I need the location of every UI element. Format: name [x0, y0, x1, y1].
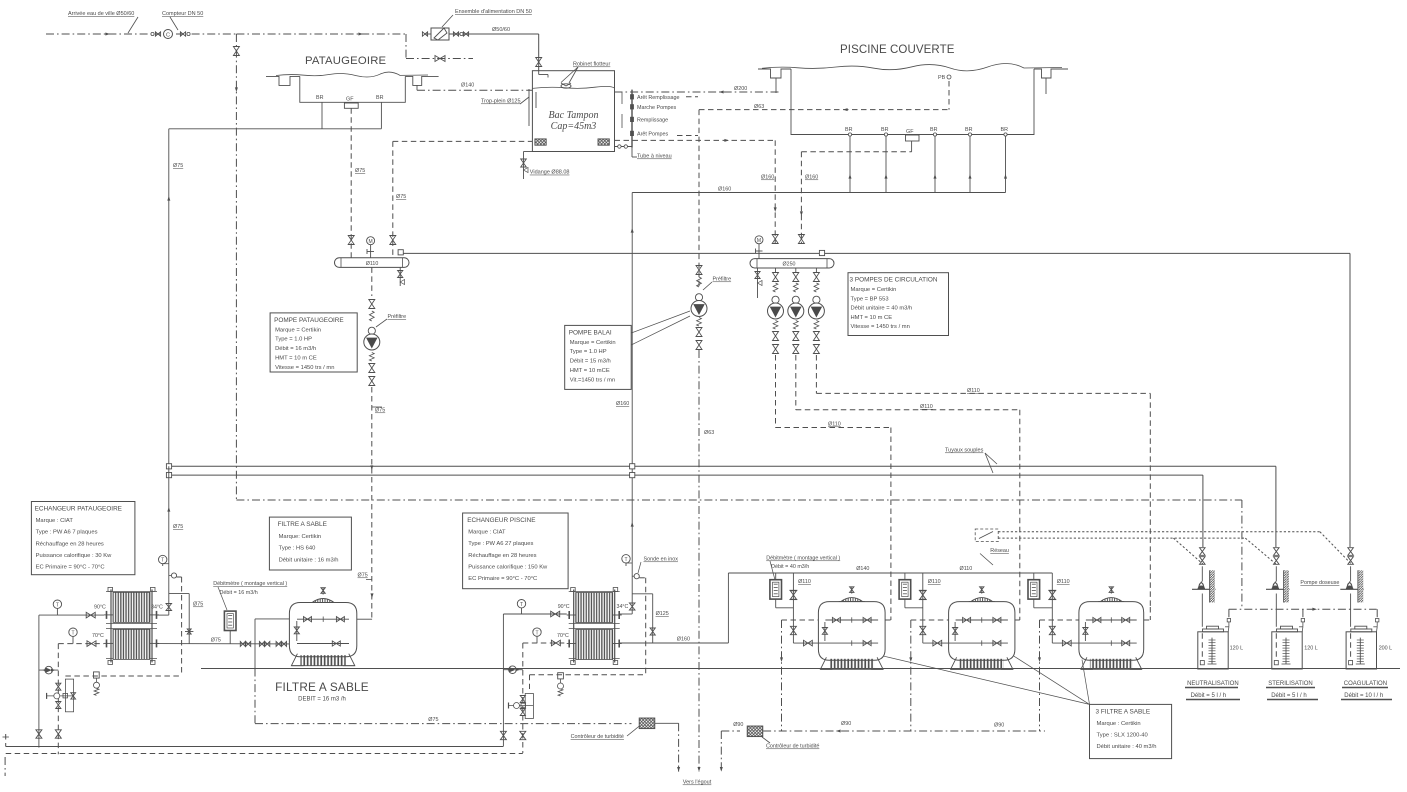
wire 90C line piscine — [503, 613, 566, 615]
GF sump box piscine — [906, 135, 920, 141]
svg-text:Ø75: Ø75 — [375, 408, 385, 414]
sand filter vessel HS640 — [289, 603, 356, 657]
svg-text:Ø75: Ø75 — [396, 194, 406, 200]
filter drop line 2 — [922, 573, 924, 643]
svg-text:Contrôleur de turbidité: Contrôleur de turbidité — [571, 734, 624, 740]
vessel drain dash-dot down — [1039, 620, 1041, 731]
svg-text:70°C: 70°C — [92, 633, 104, 639]
turbidity controller 1 — [639, 718, 655, 729]
bac tampon tank — [532, 71, 614, 152]
wall hatched — [1210, 570, 1215, 602]
vessel1 internal bottom line — [297, 643, 349, 645]
wire tuyaux souples top y=466.3 — [172, 465, 1276, 467]
wire 34C secondary to riser — [157, 614, 169, 616]
flowmeter 1 — [770, 580, 782, 599]
wire BR pipes down — [321, 102, 323, 129]
svg-text:Type : HS 640: Type : HS 640 — [279, 546, 316, 552]
text box ECHANGEUR PATAUGEOIRE — [31, 502, 134, 575]
Y-strainer ensemble alimentation — [431, 28, 449, 40]
svg-text:Ø90: Ø90 — [994, 723, 1004, 729]
dosing pump — [1192, 588, 1216, 590]
svg-text:Réchauffage en 28 heures: Réchauffage en 28 heures — [36, 541, 104, 547]
suction riser to distribution — [1228, 609, 1230, 618]
text box ECHANGEUR PISCINE — [463, 513, 568, 589]
wire 34C to riser piscine — [620, 613, 632, 615]
svg-text:HMT = 10 m CE: HMT = 10 m CE — [275, 356, 317, 362]
wire dashed sonde loop x=181.6 — [181, 577, 183, 676]
wire to bac tampon — [473, 33, 539, 35]
dosing station tank 120 L — [1198, 632, 1228, 669]
pompe pataugeoire with prefiltre — [368, 327, 375, 334]
svg-text:BR: BR — [376, 95, 384, 101]
pompe pataugeoire line — [371, 267, 373, 296]
svg-text:M: M — [369, 239, 373, 245]
svg-text:34°C: 34°C — [617, 604, 629, 610]
svg-text:Tube à niveau: Tube à niveau — [637, 154, 672, 160]
vessel feed dashed right — [1144, 619, 1151, 621]
dosing station tank 200 L — [1346, 632, 1376, 669]
svg-text:STERILISATION: STERILISATION — [1268, 681, 1313, 687]
gauge T 70C — [69, 628, 77, 636]
svg-text:Débit = 16 m3/h: Débit = 16 m3/h — [275, 346, 316, 352]
wire circulation pump3 dashed route — [815, 355, 817, 393]
svg-text:Marque : CIAT: Marque : CIAT — [36, 518, 74, 524]
svg-text:Ø160: Ø160 — [616, 401, 629, 407]
wire primary 90 drop x=39.5 — [38, 615, 40, 748]
svg-text:Ø75: Ø75 — [173, 524, 183, 530]
wire balai to sewer dash-dot x=699 — [698, 350, 700, 772]
svg-text:Arêt Remplissage: Arêt Remplissage — [637, 95, 680, 101]
pompe balai with prefiltre — [695, 294, 702, 301]
wire dashed riser x=775.2 — [774, 140, 776, 244]
svg-text:3 POMPES DE CIRCULATION: 3 POMPES DE CIRCULATION — [850, 277, 938, 284]
svg-text:Cap=45m3: Cap=45m3 — [551, 121, 597, 132]
svg-text:Ø200: Ø200 — [734, 86, 747, 92]
svg-text:POMPE PATAUGEOIRE: POMPE PATAUGEOIRE — [274, 317, 344, 324]
gauge M pataugeoire manifold — [367, 237, 375, 245]
svg-text:Ø110: Ø110 — [928, 579, 941, 585]
svg-text:PB: PB — [938, 75, 946, 81]
svg-text:Ø160: Ø160 — [677, 637, 690, 643]
sonde circle piscine — [634, 574, 639, 579]
svg-text:Sonde en inox: Sonde en inox — [644, 557, 679, 563]
svg-text:Type = BP 553: Type = BP 553 — [851, 296, 889, 302]
wire dashed riser x=801.4 — [800, 152, 802, 244]
wire BR pipes to collector — [849, 136, 851, 193]
svg-text:BR: BR — [316, 95, 324, 101]
junction box left end — [398, 250, 403, 255]
wire piscine return dash-dot O200 — [615, 91, 780, 93]
svg-text:Ø75: Ø75 — [428, 717, 438, 723]
vessel backwash out dashed left — [1040, 619, 1079, 621]
gauge T 90C — [53, 600, 61, 608]
svg-text:Préfiltre: Préfiltre — [388, 314, 407, 320]
suction lance dashed — [1350, 633, 1352, 660]
svg-text:Vitesse = 1450 trs / mn: Vitesse = 1450 trs / mn — [275, 365, 334, 371]
svg-text:Débit unitaire = 40 m3/h: Débit unitaire = 40 m3/h — [851, 306, 913, 312]
svg-text:Débitmètre ( montage vertical: Débitmètre ( montage vertical ) — [213, 581, 287, 587]
svg-text:GF: GF — [906, 129, 914, 135]
svg-text:C: C — [166, 33, 170, 39]
svg-text:Ø125: Ø125 — [656, 611, 669, 617]
piscine basin — [791, 69, 1034, 135]
wire city-water main dash-dot y=34 — [46, 33, 160, 35]
sand filter vessel SLX 1 — [818, 602, 885, 661]
sand filter vessel SLX 2 — [949, 602, 1015, 661]
injection cluster piscine — [525, 694, 533, 719]
filter drop line 3 — [1051, 573, 1053, 643]
vessel1 internal top line — [297, 618, 349, 620]
vessel internal top line — [1086, 619, 1137, 621]
wire primary 70 drop dashed x=522.8 — [522, 643, 524, 753]
svg-text:Préfiltre: Préfiltre — [713, 277, 732, 283]
piscine right gutter — [1034, 69, 1068, 78]
water meter C — [164, 30, 173, 39]
junction box right of O250 — [819, 250, 824, 255]
svg-text:NEUTRALISATION: NEUTRALISATION — [1187, 681, 1239, 687]
svg-text:90°C: 90°C — [94, 605, 106, 611]
svg-text:70°C: 70°C — [557, 633, 569, 639]
svg-text:HMT = 10 mCE: HMT = 10 mCE — [570, 368, 610, 374]
svg-text:Ensemble d'alimentation DN 50: Ensemble d'alimentation DN 50 — [455, 9, 532, 15]
svg-text:Type = 1.0 HP: Type = 1.0 HP — [275, 337, 312, 343]
pompe balai line x=699 — [698, 110, 700, 288]
svg-text:Type : SLX 1200-40: Type : SLX 1200-40 — [1097, 732, 1148, 738]
svg-text:Marque = Certikin: Marque = Certikin — [851, 287, 897, 293]
feed pipe with valves — [1350, 566, 1352, 581]
primary circulating pump pataugeoire — [39, 669, 58, 671]
svg-text:Ø75: Ø75 — [355, 168, 365, 174]
bac feed drop — [538, 34, 540, 71]
svg-text:Réchauffage en 28 heures: Réchauffage en 28 heures — [468, 553, 536, 559]
junction squares x=169 — [166, 464, 171, 469]
agitator — [1285, 638, 1287, 664]
turbidity controller 2 — [747, 726, 763, 737]
injection point fitting — [94, 672, 100, 678]
svg-text:Bac Tampon: Bac Tampon — [549, 110, 599, 121]
wire long dash-dot y=500 — [236, 499, 1242, 501]
svg-text:Débit = 16 m3/h: Débit = 16 m3/h — [220, 590, 258, 596]
svg-text:90°C: 90°C — [558, 604, 570, 610]
vessel internal left valve — [1084, 622, 1086, 641]
dosing station tank 120 L — [1272, 632, 1302, 669]
wire GF drain dashed — [911, 141, 913, 152]
vessel internal bottom line — [923, 642, 1008, 644]
svg-text:Ø110: Ø110 — [960, 566, 973, 572]
feed pipe with valves — [1275, 566, 1277, 581]
vessel internal left valve — [954, 622, 956, 641]
dosing pump — [1266, 588, 1290, 590]
svg-text:Ø90: Ø90 — [841, 721, 851, 727]
svg-text:Ø75: Ø75 — [173, 163, 183, 169]
svg-text:Marque = Certikin: Marque = Certikin — [275, 327, 321, 333]
balai leader lines — [631, 311, 690, 333]
vessel drain dash-dot down — [910, 620, 912, 731]
suction lance dashed — [1275, 633, 1277, 660]
wire line to coagulation x=1350 — [1349, 253, 1351, 547]
svg-text:Pompe doseuse: Pompe doseuse — [1300, 580, 1339, 586]
wall hatched — [1284, 570, 1289, 602]
svg-text:120 L: 120 L — [1304, 646, 1318, 652]
flowmeter 2 — [899, 580, 911, 599]
svg-text:FILTRE A SABLE: FILTRE A SABLE — [275, 680, 369, 694]
wire primary 70 drop dashed x=58.3 — [57, 644, 59, 755]
wire primary 90 drop x=503.4 — [502, 614, 504, 746]
svg-text:Tuyaux souples: Tuyaux souples — [945, 448, 984, 454]
svg-text:34°C: 34°C — [151, 605, 163, 611]
wire dashed riser x=392.8 — [392, 141, 394, 257]
flowmeter 3 — [1028, 580, 1040, 599]
svg-text:COAGULATION: COAGULATION — [1344, 681, 1387, 687]
svg-text:Débit = 10 l / h: Débit = 10 l / h — [1344, 693, 1383, 699]
svg-text:ECHANGEUR PISCINE: ECHANGEUR PISCINE — [467, 517, 535, 524]
text box POMPE BALAI — [565, 325, 632, 389]
svg-text:Type = 1.0 HP: Type = 1.0 HP — [570, 349, 607, 355]
svg-text:Type : PW A6 7 plaques: Type : PW A6 7 plaques — [36, 530, 98, 536]
svg-text:Ø75: Ø75 — [211, 638, 221, 644]
svg-text:Marche Pompes: Marche Pompes — [637, 105, 677, 111]
svg-text:Puissance calorifique : 30 Kw: Puissance calorifique : 30 Kw — [36, 553, 113, 559]
injection fitting piscine — [558, 673, 564, 679]
svg-text:ECHANGEUR PATAUGEOIRE: ECHANGEUR PATAUGEOIRE — [35, 506, 122, 513]
svg-text:Marque = Certikin: Marque = Certikin — [570, 340, 616, 346]
svg-text:T: T — [624, 557, 627, 563]
vessel internal top line — [956, 619, 1008, 621]
wire circulation pump1 dashed route — [775, 355, 777, 428]
svg-text:Débit = 15 m3/h: Débit = 15 m3/h — [570, 359, 611, 365]
vessel1 internal left valve — [296, 621, 298, 641]
leader lines to filter label — [884, 656, 1090, 704]
svg-text:Ø250: Ø250 — [783, 262, 796, 268]
svg-text:GF: GF — [346, 97, 354, 103]
wire reseau fine-dash bottom — [998, 537, 1245, 539]
wire drain x=255 — [254, 619, 256, 669]
svg-text:PISCINE COUVERTE: PISCINE COUVERTE — [840, 44, 955, 56]
wire filter header y=573 — [728, 572, 1052, 574]
wire O160 outlet y=643 — [620, 642, 729, 644]
svg-text:T: T — [71, 630, 74, 636]
suction riser to distribution — [1302, 609, 1304, 618]
svg-text:Ø110: Ø110 — [366, 261, 379, 267]
wire O160 collector y=192.5 — [632, 192, 1005, 194]
level tube bottom link — [615, 146, 633, 148]
manifold1 drain valve — [399, 267, 401, 286]
svg-text:EC Primaire = 90°C - 70°C: EC Primaire = 90°C - 70°C — [36, 565, 105, 571]
overflow standpipe — [528, 89, 530, 126]
svg-text:Vit.=1450 trs / mn: Vit.=1450 trs / mn — [570, 377, 616, 383]
agitator — [1359, 638, 1361, 664]
vessel internal top line — [825, 619, 878, 621]
svg-text:Type : PW A6 27 plaques: Type : PW A6 27 plaques — [468, 541, 533, 547]
primary circulating pump piscine — [503, 669, 522, 671]
svg-text:Débit = 5 l / h: Débit = 5 l / h — [1271, 693, 1307, 699]
text box 3 POMPES DE CIRCULATION — [848, 273, 949, 336]
svg-text:FILTRE A SABLE: FILTRE A SABLE — [278, 521, 327, 528]
gauge T 90C piscine — [517, 600, 525, 608]
bottom primary return dashed y=753.5 — [6, 753, 523, 755]
svg-text:200 L: 200 L — [1379, 646, 1393, 652]
svg-text:HMT = 10 m CE: HMT = 10 m CE — [851, 315, 893, 321]
svg-text:Marque : Certikin: Marque : Certikin — [1097, 721, 1141, 727]
suction lance dashed — [1201, 633, 1203, 660]
gauge T 70C piscine — [533, 628, 541, 636]
vessel feed dashed right — [885, 619, 891, 621]
plate heat exchanger piscine — [573, 590, 575, 663]
gauge T on riser — [159, 555, 167, 563]
svg-text:Débit = 40 m3/h: Débit = 40 m3/h — [771, 564, 809, 570]
wire hose drop to neutralisation x=1202.9 — [1202, 475, 1204, 547]
dosing pump — [1340, 588, 1364, 590]
wire balai dashed — [948, 81, 950, 110]
svg-text:Ø110: Ø110 — [920, 404, 933, 410]
wire bac-to-manifold dashed y=141.4 — [393, 140, 533, 142]
tank water line — [532, 86, 614, 88]
wire to sewer x=678.6 — [678, 723, 680, 771]
robinet flotteur — [538, 71, 540, 75]
wire hose drop to sterilisation x=1275.9 — [1275, 466, 1277, 547]
reseau supply box — [979, 532, 993, 539]
wire O75 return dash-dot y=723.6 — [255, 723, 632, 725]
wire O125 bypass x=652.7 — [632, 593, 653, 595]
sonde circle — [171, 573, 176, 578]
svg-text:Ø63: Ø63 — [754, 104, 764, 110]
svg-text:Ø110: Ø110 — [967, 388, 980, 394]
wire pump discharge dashed x=371.8 — [371, 387, 373, 619]
wire bypass O75 x=189.2 — [169, 593, 189, 595]
svg-text:Débit = 5 l / h: Débit = 5 l / h — [1191, 693, 1227, 699]
svg-text:T: T — [161, 558, 164, 564]
vessel backwash out dashed left — [911, 619, 949, 621]
manifold O110 pataugeoire — [335, 258, 410, 268]
wire reseau fine-dash top — [998, 531, 1320, 533]
svg-text:BR: BR — [881, 127, 889, 133]
tank drain vidange — [523, 152, 525, 180]
svg-text:T: T — [520, 602, 523, 608]
gauge T riser piscine — [622, 555, 630, 563]
svg-text:Ø160: Ø160 — [718, 187, 731, 193]
svg-text:BR: BR — [845, 127, 853, 133]
svg-text:Ø110: Ø110 — [798, 579, 811, 585]
circulation pump line x=816.4 — [815, 268, 817, 272]
svg-text:Débitmètre ( montage vertical: Débitmètre ( montage vertical ) — [766, 556, 840, 562]
svg-text:Ø75: Ø75 — [358, 573, 368, 579]
svg-text:EC Primaire = 90°C - 70°C: EC Primaire = 90°C - 70°C — [468, 576, 537, 582]
junction squares x=632 — [630, 464, 635, 469]
svg-text:Ø140: Ø140 — [856, 566, 869, 572]
circulation pump line x=775.5 — [775, 268, 777, 272]
vessel internal bottom line — [793, 642, 878, 644]
sand filter vessel SLX 3 — [1079, 602, 1144, 661]
svg-text:Arêt Pompes: Arêt Pompes — [637, 132, 668, 138]
svg-text:Ø110: Ø110 — [1057, 579, 1070, 585]
level tube — [631, 90, 633, 148]
svg-text:PATAUGEOIRE: PATAUGEOIRE — [305, 55, 387, 67]
injection cluster pataugeoire — [65, 675, 181, 677]
svg-text:Trop-plein Ø125: Trop-plein Ø125 — [481, 99, 521, 105]
strainer bypass dash-dot — [405, 34, 407, 59]
vessel internal bottom line — [1052, 642, 1136, 644]
suction riser to distribution — [1376, 609, 1378, 618]
wire pataugeoire overflow collector y=128.8 — [169, 128, 382, 130]
svg-text:3 FILTRE A SABLE: 3 FILTRE A SABLE — [1096, 708, 1151, 715]
wire O160 up to filter header x=728.4 — [727, 573, 729, 643]
vessel backwash out dashed left — [782, 619, 819, 621]
pump outlet valves — [369, 353, 374, 362]
svg-text:Remplissage: Remplissage — [637, 118, 668, 124]
wire 70C primary dashed — [58, 643, 104, 645]
flowmeter pataugeoire — [224, 611, 236, 630]
svg-text:Ø110: Ø110 — [828, 422, 841, 428]
svg-text:BR: BR — [965, 127, 973, 133]
filter drop line 1 — [792, 573, 794, 643]
suction strainers in tank — [535, 139, 546, 145]
svg-text:Marque: Certikin: Marque: Certikin — [279, 534, 322, 540]
svg-text:Contrôleur de turbidité: Contrôleur de turbidité — [766, 744, 819, 750]
manifold O250 piscine — [750, 259, 834, 268]
GF sump box — [344, 103, 358, 108]
floor line y=668.5 — [201, 668, 1400, 670]
text box FILTRE A SABLE — [269, 517, 351, 570]
svg-text:Réseau: Réseau — [990, 548, 1009, 554]
svg-text:Ø75: Ø75 — [193, 602, 203, 608]
svg-text:Ø63: Ø63 — [704, 430, 714, 436]
svg-text:BR: BR — [1001, 127, 1009, 133]
svg-text:Ø160: Ø160 — [805, 175, 818, 181]
wire overflow riser x=168.8 — [168, 129, 170, 467]
svg-text:T: T — [56, 602, 59, 608]
wire O90 drain collector y=731 — [721, 730, 740, 732]
gauge M piscine manifold — [755, 236, 763, 244]
plate heat exchanger pataugeoire — [110, 589, 112, 662]
vessel internal left valve — [824, 622, 826, 641]
svg-text:Arrivée eau de ville Ø50/60: Arrivée eau de ville Ø50/60 — [68, 11, 134, 17]
manifold2 drain valve — [757, 268, 759, 292]
pataugeoire right gutter — [405, 76, 438, 85]
svg-text:Vitesse = 1450 trs / mn: Vitesse = 1450 trs / mn — [851, 324, 910, 330]
wire O160 riser x=632.2 — [631, 193, 633, 615]
level signal dash lines — [686, 96, 698, 98]
flow arrow — [105, 32, 110, 35]
text box POMPE PATAUGEOIRE — [270, 313, 357, 372]
agitator — [1211, 638, 1213, 664]
wall hatched — [1358, 570, 1363, 602]
vessel feed dashed right — [1015, 619, 1020, 621]
piscine left gutter — [758, 69, 791, 78]
wire O75 feed line y=643.9 — [157, 643, 289, 645]
text box 3 FILTRE A SABLE — [1090, 704, 1172, 758]
svg-text:120 L: 120 L — [1230, 646, 1244, 652]
svg-text:Vers l'égout: Vers l'égout — [683, 780, 712, 786]
wire dosing distribution dash-dot y=609.2 — [1241, 500, 1243, 609]
water surface wavy — [276, 72, 428, 77]
svg-text:DEBIT = 16 m3 /h: DEBIT = 16 m3 /h — [298, 697, 346, 703]
pataugeoire pool basin — [266, 76, 300, 85]
svg-text:Ø50/60: Ø50/60 — [492, 27, 510, 33]
wire backwash supply dash-dot x=236.4 — [235, 34, 237, 500]
left end stubs — [5, 734, 7, 747]
wire 90C primary line — [39, 614, 104, 616]
vessel drain dash-dot down — [781, 620, 783, 731]
wire tuyaux souples bottom y=475.1 — [172, 474, 1203, 476]
svg-text:Puissance calorifique : 150 Kw: Puissance calorifique : 150 Kw — [468, 564, 548, 570]
svg-text:Vidange Ø88.08: Vidange Ø88.08 — [530, 170, 570, 176]
svg-text:Ø140: Ø140 — [461, 83, 474, 89]
svg-text:POMPE BALAI: POMPE BALAI — [569, 329, 612, 336]
circulation pump line x=795.8 — [795, 268, 797, 272]
svg-text:Débit unitaire : 40 m3/h: Débit unitaire : 40 m3/h — [1097, 744, 1157, 750]
wire riser x=168.8 lower part — [168, 466, 170, 615]
wire inlet top left y=618.9 — [255, 618, 289, 620]
